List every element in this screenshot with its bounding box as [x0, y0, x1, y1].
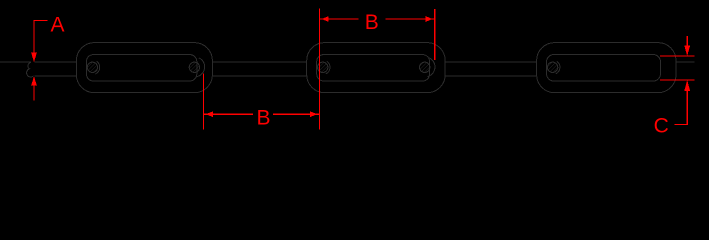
svg-text:B: B: [365, 11, 379, 34]
svg-text:A: A: [51, 13, 65, 36]
link 3 left wire section circle: [547, 62, 557, 72]
link 3 inner slot: [547, 55, 661, 81]
dim C up arrowhead: [684, 80, 690, 91]
dim C down arrowhead: [684, 46, 690, 56]
wire segment right end: top line: [676, 61, 694, 63]
dim C vertical line bottom and elbow to label: [675, 90, 688, 125]
link 2 left hook arc: [326, 61, 330, 74]
link 2 right wire section circle: [420, 62, 430, 72]
wire segment left end: bottom line: [35, 75, 77, 77]
wire segment link1-link2: top line: [213, 61, 307, 63]
dim B bottom right arrowhead: [310, 111, 317, 117]
dim B top left arrowhead: [322, 16, 329, 22]
dim A down arrowhead: [31, 53, 37, 63]
link 3 left hook arc: [556, 61, 560, 74]
dim B top dimension line: [319, 18, 434, 20]
dim C bottom reference bar: [660, 79, 694, 81]
wire segment left end: top line: [0, 61, 31, 63]
svg-text:B: B: [257, 107, 271, 130]
link 1 outer plate: [76, 43, 212, 93]
link 2 inner slot: [317, 55, 430, 81]
dim B shared extension line (top B left / bottom B right): [318, 8, 320, 129]
dim B top extension line right: [434, 9, 436, 60]
dim B bottom left arrowhead: [206, 111, 213, 117]
link 2 outer plate: [307, 43, 446, 93]
dim C top reference bar: [660, 55, 694, 57]
wire end loop (left hook): [27, 62, 34, 77]
wire segment link2-link3: bottom line: [445, 75, 536, 77]
dim B top right arrowhead: [426, 16, 433, 22]
link 1 inner slot: [86, 55, 196, 81]
dim A leader elbow: [34, 21, 48, 54]
svg-text:C: C: [654, 115, 669, 138]
dim A up arrowhead: [31, 76, 37, 86]
link 2 right hook arc: [427, 58, 435, 77]
link 2 left wire section circle: [318, 62, 328, 72]
dim B bottom extension line left: [203, 74, 205, 130]
link 1 right wire section circle: [189, 62, 199, 72]
link 1 right hook arc: [197, 58, 205, 77]
dim A lower extension: [33, 85, 35, 101]
link 1 left wire section circle: [87, 62, 97, 72]
dim C vertical line top: [686, 36, 688, 47]
wire segment link1-link2: bottom line: [213, 75, 307, 77]
wire segment link2-link3: top line: [445, 61, 536, 63]
link 3 outer plate: [537, 43, 676, 93]
link 1 left hook arc: [96, 61, 100, 74]
dim B bottom dimension line: [204, 113, 319, 115]
